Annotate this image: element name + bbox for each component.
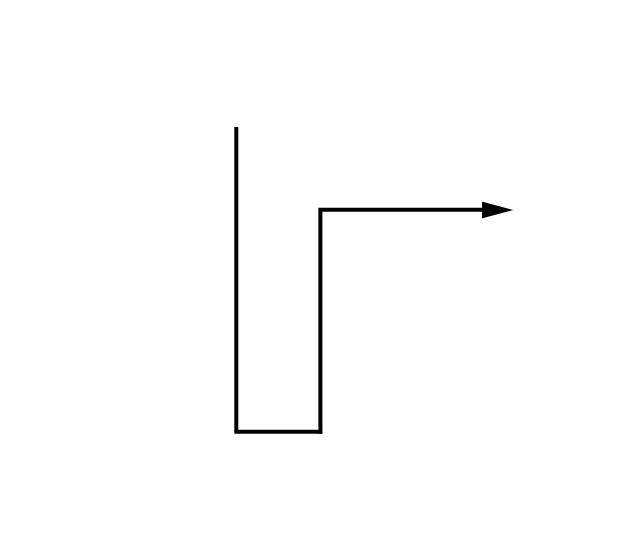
arrowhead [482,202,513,219]
wire vertical segment 1 (left, top to bottom) [234,127,238,432]
wire horizontal segment (arrow shaft) [318,208,486,212]
wire horizontal segment (bottom) [234,430,322,434]
wire vertical segment 2 (middle, bottom to top) [318,210,322,434]
